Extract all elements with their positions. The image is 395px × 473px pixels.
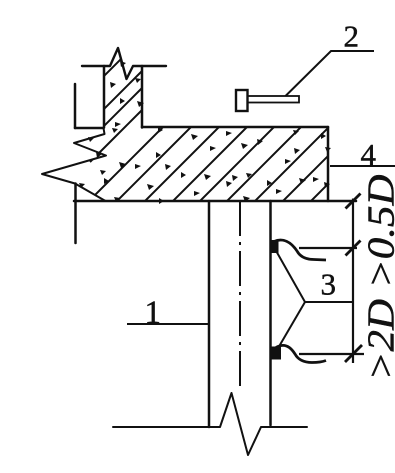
- svg-text:>2D >0.5D: >2D >0.5D: [361, 175, 395, 381]
- svg-text:3: 3: [321, 267, 337, 302]
- svg-text:1: 1: [145, 295, 162, 331]
- svg-text:2: 2: [344, 19, 360, 54]
- svg-text:4: 4: [361, 137, 377, 172]
